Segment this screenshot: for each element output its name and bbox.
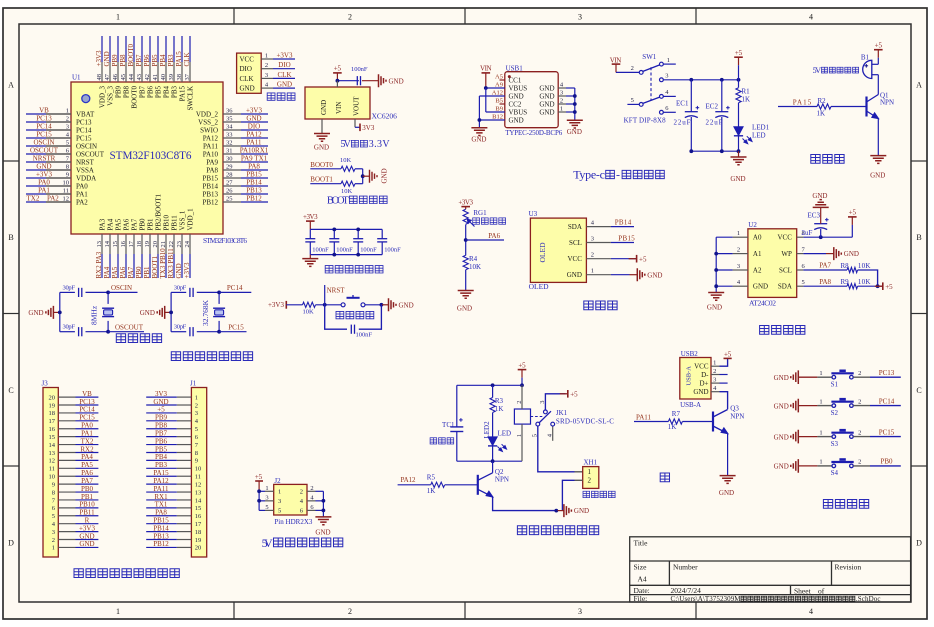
U1 pin 31 (PA10) (223, 153, 241, 155)
svg-text:RX2 PA3: RX2 PA3 (95, 251, 103, 278)
svg-text:1: 1 (819, 370, 822, 377)
wire (165, 311, 171, 313)
svg-text:+3V3: +3V3 (268, 301, 285, 309)
svg-text:VBUS: VBUS (509, 109, 528, 117)
svg-text:3: 3 (578, 607, 582, 616)
svg-text:TYPEC-250D-BCP6: TYPEC-250D-BCP6 (505, 129, 563, 137)
svg-text:PB6: PB6 (147, 86, 155, 99)
svg-text:PB14: PB14 (202, 182, 218, 190)
svg-text:44: 44 (128, 73, 135, 80)
power +5 (875, 285, 883, 287)
svg-text:3: 3 (195, 410, 198, 417)
svg-text:35: 35 (226, 116, 233, 123)
wire emitter (727, 434, 729, 476)
wire (803, 269, 847, 271)
U1 pin 6 (OSCOUT) (46, 153, 71, 155)
wire (259, 490, 265, 492)
wire (630, 274, 638, 276)
svg-text:USB2: USB2 (681, 350, 699, 358)
wire (798, 436, 817, 438)
svg-text:TC1: TC1 (442, 421, 455, 429)
svg-text:9: 9 (195, 458, 198, 465)
svg-text:17: 17 (195, 521, 202, 528)
U1 pin 11 (PA1) (46, 193, 71, 195)
wire (870, 465, 901, 467)
svg-text:3: 3 (278, 498, 281, 505)
svg-text:PB15: PB15 (153, 516, 169, 524)
U1 pin 19 (PB1) (149, 234, 151, 254)
wire (258, 491, 260, 510)
svg-text:VSS_3: VSS_3 (107, 86, 115, 106)
capacitor 100nF (381, 229, 383, 238)
junction (217, 330, 221, 334)
junction (876, 284, 880, 288)
svg-text:3: 3 (665, 72, 668, 79)
svg-text:-: - (616, 168, 620, 182)
junction (484, 86, 488, 90)
svg-text:+3V3: +3V3 (458, 199, 473, 207)
svg-text:PB10: PB10 (79, 501, 95, 509)
wire (219, 331, 246, 333)
wire (197, 291, 219, 293)
svg-text:2: 2 (631, 65, 634, 72)
wire (558, 510, 564, 512)
ground (834, 247, 842, 260)
svg-text:BOOT0: BOOT0 (127, 43, 135, 66)
resistor 10K (341, 181, 355, 186)
svg-text:GND: GND (870, 171, 885, 179)
svg-text:OLED: OLED (529, 282, 550, 291)
U1 pin 5 (OSCIN) (46, 145, 71, 147)
svg-text:GND: GND (314, 144, 329, 152)
U1 pin 20 (PB2/BOOT1) (157, 234, 159, 254)
wire (870, 376, 901, 378)
svg-text:PA4: PA4 (107, 218, 115, 230)
wire (117, 36, 119, 62)
svg-text:PB0: PB0 (81, 485, 94, 493)
wire (26, 177, 46, 179)
svg-text:PA9: PA9 (206, 158, 218, 166)
power +5 (333, 72, 342, 74)
wire (465, 225, 467, 256)
svg-text:PA15: PA15 (153, 469, 169, 477)
svg-text:OSCOUT: OSCOUT (30, 147, 59, 155)
wire (325, 305, 347, 329)
wire (355, 126, 360, 128)
svg-text:2: 2 (265, 62, 268, 69)
svg-text:PB13: PB13 (153, 532, 169, 540)
svg-text:GND: GND (509, 93, 524, 101)
svg-text:13: 13 (49, 450, 56, 457)
wire (310, 228, 382, 230)
svg-text:3: 3 (591, 236, 594, 243)
svg-text:PB0: PB0 (880, 458, 893, 466)
svg-text:GND: GND (707, 304, 722, 312)
svg-text:+5: +5 (875, 42, 883, 50)
wire (108, 331, 144, 333)
svg-text:15: 15 (49, 434, 56, 441)
USB1 pin A5 stub (500, 79, 505, 81)
U1 pin 33 (PA12) (223, 137, 241, 139)
svg-text:PB3: PB3 (167, 54, 175, 67)
svg-text:NRST: NRST (76, 158, 95, 166)
svg-text:PB13: PB13 (202, 190, 218, 198)
ground (564, 504, 572, 517)
svg-text:GND: GND (774, 463, 789, 471)
wire (26, 145, 46, 147)
svg-text:TX1: TX1 (155, 501, 168, 509)
wire (858, 270, 878, 286)
svg-text:+5: +5 (157, 406, 165, 414)
svg-text:20: 20 (195, 545, 202, 552)
wire (60, 291, 75, 293)
svg-text:A: A (916, 81, 922, 90)
wire (355, 183, 363, 185)
capacitor 100nF (309, 229, 311, 238)
wire (241, 113, 268, 115)
wire (241, 193, 268, 195)
svg-text:PC13: PC13 (76, 118, 92, 126)
svg-text:GND: GND (399, 301, 414, 309)
svg-text:PB15: PB15 (202, 174, 218, 182)
svg-text:36: 36 (226, 108, 233, 115)
svg-text:U2: U2 (748, 221, 757, 229)
svg-text:PC14: PC14 (227, 284, 243, 292)
wire (798, 376, 817, 378)
svg-text:+3V3: +3V3 (79, 524, 96, 532)
svg-text:DIO: DIO (278, 61, 290, 69)
svg-text:+5: +5 (735, 49, 743, 57)
svg-text:4: 4 (809, 12, 813, 21)
svg-text:PA6: PA6 (81, 469, 93, 477)
wire (76, 420, 99, 422)
junction (464, 238, 468, 242)
svg-text:PB9: PB9 (115, 86, 123, 99)
svg-text:5V: 5V (340, 139, 351, 150)
title independent buttons (823, 500, 832, 509)
svg-text:PC13: PC13 (79, 398, 95, 406)
ground (870, 156, 886, 164)
wire (478, 96, 480, 128)
wire (682, 421, 713, 423)
XH1 pin 2 stub (575, 479, 583, 481)
svg-text:GND: GND (730, 175, 745, 183)
svg-text:Size: Size (634, 563, 648, 572)
svg-text:RX3 PB11: RX3 PB11 (167, 248, 175, 279)
svg-text:PA3: PA3 (99, 218, 107, 230)
svg-text:2: 2 (588, 477, 592, 485)
junction (322, 509, 326, 513)
svg-text:15: 15 (112, 241, 119, 248)
junction (737, 78, 741, 82)
svg-text:PA11: PA11 (203, 142, 219, 150)
wire (316, 500, 324, 502)
svg-text:PB8: PB8 (155, 422, 168, 430)
wire (634, 421, 668, 423)
junction (689, 78, 693, 82)
title chip filter caps (325, 266, 333, 273)
svg-text:S3: S3 (831, 440, 839, 448)
svg-text:PA2: PA2 (76, 198, 88, 206)
svg-text:KFT DIP-8X8: KFT DIP-8X8 (624, 116, 667, 124)
wire (173, 254, 175, 278)
U1 pin 3 (PC14) (46, 129, 71, 131)
svg-text:GND: GND (140, 309, 155, 317)
svg-text:VB: VB (39, 107, 49, 115)
svg-text:VB: VB (82, 390, 92, 398)
svg-text:JK1: JK1 (556, 409, 568, 417)
wire (146, 404, 177, 406)
svg-text:+3V3: +3V3 (246, 107, 263, 115)
svg-text:NRSTR: NRSTR (33, 155, 56, 163)
power +5 (848, 216, 857, 218)
U1 pin 7 (NRST) (46, 161, 71, 163)
svg-text:39: 39 (168, 74, 175, 81)
svg-text:2024/7/24: 2024/7/24 (671, 586, 702, 595)
svg-text:TX2: TX2 (81, 437, 94, 445)
svg-text:GND: GND (539, 109, 554, 117)
junction (323, 303, 327, 307)
wire (627, 103, 639, 105)
wire (26, 121, 46, 123)
transistor Q1 NPN (865, 97, 867, 117)
svg-text:19: 19 (144, 241, 151, 248)
wire (738, 136, 740, 151)
svg-text:10: 10 (195, 466, 202, 473)
svg-text:10K: 10K (341, 188, 353, 195)
U pin GND (321, 119, 323, 134)
svg-text:J2: J2 (274, 477, 281, 485)
wire (858, 285, 883, 287)
svg-text:PB1: PB1 (81, 493, 94, 501)
svg-text:100nF: 100nF (360, 247, 377, 254)
svg-text:5: 5 (66, 140, 69, 147)
svg-text:2: 2 (858, 398, 861, 405)
wire (521, 378, 523, 386)
ground (370, 170, 378, 183)
svg-text:10: 10 (63, 180, 70, 187)
wire (146, 523, 177, 525)
svg-text:A4: A4 (638, 575, 647, 584)
wire (241, 185, 268, 187)
wire (146, 475, 177, 477)
svg-text:D: D (8, 539, 14, 548)
svg-text:1: 1 (116, 607, 120, 616)
svg-text:STM32F103C8T6: STM32F103C8T6 (110, 150, 192, 162)
wire (566, 87, 575, 89)
wire (86, 331, 109, 333)
wire (146, 515, 177, 517)
svg-text:PB5: PB5 (151, 54, 159, 67)
svg-text:PA7: PA7 (819, 262, 831, 270)
U1 pin 22 (PB11) (173, 234, 175, 254)
svg-text:1K: 1K (668, 423, 677, 431)
wire (720, 392, 728, 410)
svg-text:PA7: PA7 (127, 266, 135, 278)
wire (574, 88, 576, 120)
wire (171, 331, 186, 333)
svg-text:22: 22 (168, 241, 175, 248)
U1 pin 17 (PA7) (133, 234, 135, 254)
wire (273, 87, 295, 89)
svg-text:D-: D- (701, 371, 709, 379)
svg-text:.SchDoc: .SchDoc (856, 595, 881, 603)
svg-text:GND: GND (753, 283, 768, 291)
svg-text:VSS_2: VSS_2 (198, 118, 218, 126)
svg-text:GND: GND (277, 81, 292, 89)
wire (241, 169, 268, 171)
junction (356, 228, 360, 232)
svg-text:1: 1 (195, 394, 198, 401)
wire (716, 285, 732, 287)
svg-text:GND: GND (774, 374, 789, 382)
svg-text:PB1: PB1 (143, 266, 151, 279)
wire (778, 106, 817, 108)
svg-text:PA7: PA7 (131, 218, 139, 230)
svg-text:C: C (916, 386, 921, 395)
wire (181, 254, 183, 278)
svg-text:PB12: PB12 (202, 198, 218, 206)
svg-text:14: 14 (195, 497, 202, 504)
svg-text:1: 1 (819, 398, 822, 405)
svg-text:2: 2 (310, 485, 313, 492)
svg-text:BOOT1: BOOT1 (151, 255, 159, 278)
wire (146, 491, 177, 493)
capacitor 100nF (356, 76, 358, 85)
wire (545, 394, 565, 410)
U1 pin 29 (PA8) (223, 169, 241, 171)
svg-text:LED1: LED1 (752, 124, 770, 132)
wire (157, 36, 159, 62)
ground (708, 293, 724, 301)
JK1 pin 2 (521, 385, 523, 409)
wire (716, 253, 732, 255)
svg-text:C: C (8, 386, 13, 395)
net NRST stub (324, 285, 326, 305)
wire (197, 331, 219, 333)
junction (361, 174, 365, 178)
svg-text:CLK: CLK (278, 71, 292, 79)
USB1 pin B5 stub (500, 103, 505, 105)
wire (76, 539, 99, 541)
wire (146, 539, 177, 541)
svg-text:1: 1 (116, 12, 120, 21)
svg-text:PC13: PC13 (36, 115, 52, 123)
wire (109, 254, 111, 278)
svg-text:SWCLK: SWCLK (187, 86, 195, 111)
wire (26, 201, 46, 203)
svg-text:PB4: PB4 (155, 453, 168, 461)
wire (146, 451, 177, 453)
SW1 lever (643, 65, 660, 72)
wire (171, 291, 186, 293)
power +5 (518, 369, 527, 371)
svg-text:Title: Title (634, 539, 649, 548)
svg-text:GND: GND (539, 85, 554, 93)
svg-text:PC15: PC15 (79, 414, 95, 422)
svg-text:PA0: PA0 (81, 422, 93, 430)
svg-text:100nF: 100nF (351, 66, 368, 73)
capacitor 30pF (78, 288, 80, 297)
svg-text:10: 10 (49, 474, 56, 481)
svg-text:1K: 1K (742, 96, 751, 104)
wire (76, 459, 99, 461)
U1 pin 38 (PA15) (181, 62, 183, 82)
wire (259, 500, 265, 502)
svg-text:A1: A1 (753, 250, 762, 258)
svg-text:+5: +5 (849, 209, 857, 217)
U1 pin 16 (PA6) (125, 234, 127, 254)
wire (316, 304, 342, 306)
svg-text:LED: LED (498, 430, 512, 438)
svg-text:PB7: PB7 (155, 429, 168, 437)
ground (567, 120, 583, 128)
U1 pin 14 (PA4) (109, 234, 111, 254)
U1 pin 10 (PA0) (46, 185, 71, 187)
svg-text:41: 41 (152, 74, 159, 81)
U1 pin 27 (PB14) (223, 185, 241, 187)
svg-text:B1: B1 (861, 53, 870, 61)
svg-text:GND: GND (574, 507, 589, 515)
svg-text:USB-A: USB-A (680, 401, 701, 409)
svg-text:3: 3 (578, 12, 582, 21)
title block (630, 537, 911, 602)
svg-text:PB1: PB1 (147, 218, 155, 231)
svg-text:VDD_1: VDD_1 (187, 208, 195, 231)
wire (76, 515, 99, 517)
svg-text:PC14: PC14 (879, 397, 895, 405)
wire (851, 225, 853, 237)
SW1 lever (643, 97, 660, 103)
wire (146, 412, 177, 414)
svg-text:19: 19 (49, 402, 56, 409)
svg-text:U1: U1 (72, 74, 81, 82)
svg-text:A0: A0 (753, 234, 762, 242)
svg-text:45: 45 (120, 74, 127, 81)
U1 pin 28 (PB15) (223, 177, 241, 179)
svg-text:Pin HDR2X3: Pin HDR2X3 (274, 518, 313, 526)
ground (637, 268, 645, 281)
svg-text:GND: GND (509, 117, 524, 125)
svg-text:PA8: PA8 (248, 163, 260, 171)
svg-text:100nF: 100nF (356, 332, 373, 339)
wire (26, 193, 46, 195)
svg-text:10K: 10K (303, 309, 315, 316)
svg-text:1: 1 (52, 545, 55, 552)
title crystal circuit (116, 334, 125, 343)
wire (611, 258, 637, 260)
wire (456, 385, 458, 427)
wire (803, 285, 847, 287)
U pin VOUT (354, 119, 356, 127)
svg-text:+3V3: +3V3 (276, 52, 293, 60)
svg-text:PB6: PB6 (143, 54, 151, 67)
wire (611, 274, 630, 276)
svg-text:PB0: PB0 (135, 266, 143, 279)
svg-text:VDD_3: VDD_3 (99, 86, 107, 109)
svg-text:PA8: PA8 (206, 166, 218, 174)
U1 pin 39 (PB3) (173, 62, 175, 82)
wire (165, 254, 167, 278)
svg-text:1K: 1K (427, 487, 436, 495)
svg-text:PB5: PB5 (155, 86, 163, 99)
svg-text:OSCIN: OSCIN (111, 284, 132, 292)
svg-text:3V3: 3V3 (155, 390, 168, 398)
svg-text:22uF: 22uF (706, 118, 723, 126)
wire (76, 467, 99, 469)
svg-text:PA8: PA8 (155, 509, 167, 517)
junction (491, 383, 495, 387)
